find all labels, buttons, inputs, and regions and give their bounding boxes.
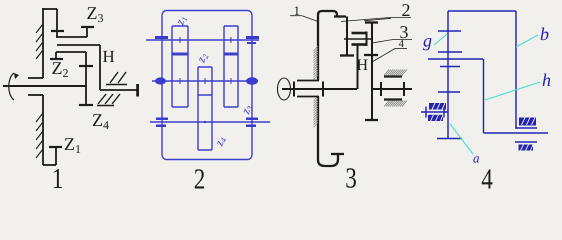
- svg-text:Z1: Z1: [64, 134, 81, 156]
- shaft II: [152, 80, 258, 82]
- frame hatching upper: [36, 24, 43, 59]
- hub mark right column shaft II: [228, 78, 234, 84]
- svg-text:z4: z4: [211, 135, 228, 149]
- ring gear member upper: [318, 11, 337, 81]
- svg-text:z2: z2: [193, 51, 210, 65]
- svg-text:b: b: [540, 24, 549, 44]
- hub mark left column shaft I: [177, 37, 183, 43]
- shaft I: [146, 39, 259, 41]
- hub mark left column shaft II: [177, 78, 183, 84]
- mesh tick upper: [438, 51, 462, 53]
- gear 4 shaft vertical: [364, 23, 378, 121]
- gear g tick: [438, 30, 461, 32]
- bearing housing lines: [297, 81, 319, 97]
- housing frame: [162, 11, 252, 160]
- fixed support hatch upper right: [519, 118, 536, 126]
- bearing shaft III left: [156, 118, 168, 128]
- leader g: [434, 34, 447, 45]
- svg-text:3: 3: [345, 163, 357, 191]
- step horizontal: [515, 127, 537, 129]
- gear column middle: [198, 67, 212, 150]
- output gear 4 stub shaft: [372, 88, 412, 90]
- input shaft a: [421, 111, 448, 113]
- frame hatching lower: [36, 113, 43, 158]
- svg-text:2: 2: [402, 0, 411, 20]
- frame wall upper: [42, 8, 44, 78]
- wall hatching upper (gray): [314, 46, 319, 80]
- output support hatch lower: [384, 101, 407, 107]
- svg-text:Z3: Z3: [87, 3, 104, 25]
- gear Z1: [49, 147, 62, 165]
- bearing ticks on input shaft: [294, 82, 323, 97]
- bearing shaft II left: [155, 77, 166, 84]
- frame bottom arm: [43, 164, 56, 166]
- planet shaft: [79, 52, 93, 105]
- input shaft: [282, 88, 357, 90]
- shaft III: [150, 121, 270, 123]
- leader h: [485, 82, 540, 100]
- input shaft: [3, 85, 86, 87]
- curl top bar: [331, 153, 344, 155]
- svg-text:4: 4: [481, 164, 493, 191]
- bearing shaft I right: [246, 36, 259, 44]
- main frame: [448, 11, 516, 138]
- support hatch upper right: [106, 72, 127, 85]
- svg-text:H: H: [103, 47, 115, 66]
- input bearing ticks: [426, 107, 444, 118]
- input bearing hatch upper: [429, 103, 446, 110]
- support hatch lower right: [97, 94, 120, 106]
- input bearing hatch lower: [428, 115, 443, 121]
- lower rail: [515, 141, 537, 143]
- svg-text:Z4: Z4: [92, 110, 109, 132]
- bottom end bar: [437, 138, 462, 140]
- svg-text:Z2: Z2: [52, 58, 69, 80]
- svg-text:2: 2: [194, 164, 206, 191]
- gear column left: [172, 26, 188, 107]
- gear Z2 bracket: [50, 52, 86, 59]
- svg-text:g: g: [423, 31, 432, 51]
- mesh tick lower: [440, 66, 460, 68]
- carrier output end bar: [136, 84, 139, 97]
- svg-text:H: H: [357, 57, 369, 74]
- svg-text:1: 1: [52, 163, 64, 190]
- ring gear Z3: [56, 27, 94, 37]
- input rotation arrow: [9, 73, 14, 100]
- hub mark right column shaft I: [228, 37, 234, 43]
- output gear ticks: [381, 82, 404, 96]
- bearing shaft II right: [246, 77, 258, 85]
- input rotation loop: [278, 78, 291, 100]
- hub dot middle column shaft III: [204, 121, 206, 123]
- hub mark middle column shaft II: [202, 78, 208, 84]
- frame wall lower: [42, 95, 44, 165]
- gear Z3 fixed post: [51, 9, 64, 37]
- ring gear member lower with curl: [318, 97, 338, 167]
- output support bars: [384, 77, 402, 100]
- bearing shaft I left: [155, 36, 168, 39]
- bearing stub upper: [28, 77, 43, 79]
- wall hatching lower (gray): [314, 96, 319, 127]
- output support hatch upper: [384, 70, 407, 76]
- gear 2 post: [340, 17, 354, 56]
- bearing shaft III right: [246, 118, 258, 128]
- leader b: [516, 35, 538, 47]
- carrier H arm: [57, 45, 137, 90]
- leader a: [450, 124, 473, 154]
- fixed support hatch lower right: [519, 145, 534, 151]
- svg-text:h: h: [542, 70, 551, 90]
- long bottom rail: [484, 132, 549, 134]
- carrier H post: [357, 46, 359, 90]
- carrier arm: [428, 58, 483, 60]
- gear pair block: [344, 32, 372, 47]
- svg-text:a: a: [473, 151, 480, 166]
- bearing stub lower: [28, 94, 43, 96]
- gear tick: [438, 91, 460, 93]
- gear 1 mesh tick: [334, 15, 346, 17]
- frame top arm: [43, 8, 57, 10]
- gear column right: [224, 26, 238, 107]
- link h vertical: [483, 59, 485, 133]
